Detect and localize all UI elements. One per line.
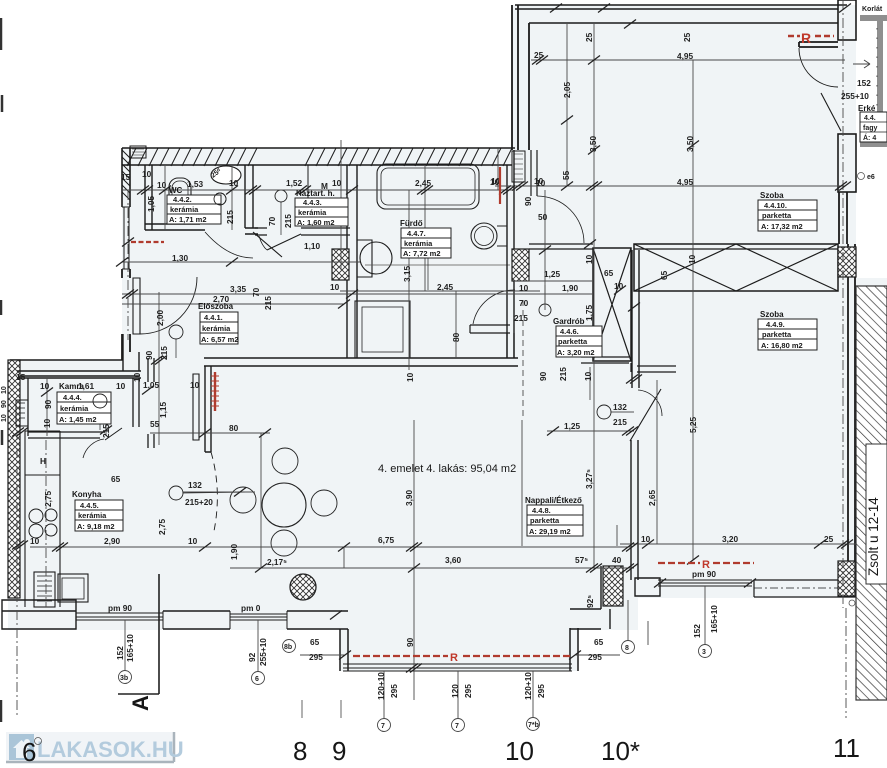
Szoba 4.4.10 [758, 200, 817, 231]
svg-text:4.4.: 4.4. [864, 115, 876, 122]
WC [167, 195, 221, 224]
svg-text:2,65: 2,65 [647, 489, 657, 506]
svg-text:215: 215 [263, 296, 273, 310]
door chain y=433 [150, 432, 270, 434]
Eloszoba [200, 312, 238, 344]
svg-text:215: 215 [225, 210, 235, 224]
svg-text:10: 10 [1, 386, 8, 394]
wall between windows [163, 611, 230, 629]
long horizontal y=547 [30, 546, 630, 548]
wall crossed band horizontal (between szoba rooms) [634, 244, 838, 291]
svg-text:10: 10 [30, 536, 40, 546]
red vertical line furdo right [499, 167, 501, 204]
svg-text:10: 10 [641, 534, 651, 544]
svg-text:2,45: 2,45 [437, 282, 454, 292]
dim verticals lower wing top strip [232, 140, 425, 291]
white box for street name [866, 444, 887, 584]
svg-text:M: M [321, 181, 328, 191]
svg-text:2,75: 2,75 [43, 490, 53, 507]
svg-text:1,90: 1,90 [229, 543, 239, 560]
Konyha [75, 500, 123, 531]
svg-text:H: H [40, 456, 46, 466]
svg-text:10: 10 [614, 281, 624, 291]
svg-text:fagy: fagy [863, 125, 878, 132]
svg-text:132: 132 [613, 402, 627, 412]
svg-text:1,53: 1,53 [187, 179, 204, 189]
svg-text:65: 65 [111, 474, 121, 484]
svg-text:e6: e6 [867, 174, 875, 181]
vertical near kamra [47, 378, 106, 436]
svg-text:A: 17,32 m2: A: 17,32 m2 [761, 222, 803, 231]
svg-text:4.4.6.: 4.4.6. [560, 327, 579, 336]
center axis dash-dot lines [843, 0, 846, 718]
wall top band of lower wing (y=148..166) [122, 148, 515, 165]
eloszoba dims [122, 262, 593, 304]
balcony label box [860, 112, 887, 142]
shower square furdo [355, 301, 410, 358]
wall left lower piece to step [122, 334, 130, 360]
svg-text:10: 10 [229, 178, 239, 188]
wall between konyha and eloszoba x=148..154 [148, 358, 154, 448]
gardrob top wall [529, 244, 593, 249]
wall crossed tall box (gardrob right) [581, 248, 676, 388]
svg-text:55: 55 [150, 419, 160, 429]
svg-text:255+10: 255+10 [841, 91, 869, 101]
red radiator bay window [353, 655, 570, 657]
vertical chains center [159, 166, 414, 700]
Haztart [295, 198, 348, 226]
svg-text:4,95: 4,95 [677, 51, 694, 61]
szoba 4.4.9 internal verticals [656, 380, 658, 544]
svg-text:1,52: 1,52 [286, 178, 303, 188]
svg-text:8b: 8b [284, 644, 292, 651]
svg-text:25: 25 [682, 32, 692, 42]
svg-text:10: 10 [142, 169, 152, 179]
scan edge artifacts left [1, 18, 2, 722]
svg-text:3,60: 3,60 [445, 555, 462, 565]
svg-text:165+10: 165+10 [709, 605, 719, 633]
svg-text:Szoba: Szoba [760, 191, 784, 200]
window pm0 [230, 611, 287, 629]
svg-text:92: 92 [247, 652, 257, 662]
svg-text:90: 90 [405, 637, 415, 647]
wall hatch ticks in top band [127, 148, 512, 166]
konyha/nappali divider x=204..212 [205, 366, 211, 452]
toilet furdo [357, 240, 372, 277]
svg-text:A: 6,57 m2: A: 6,57 m2 [201, 335, 239, 344]
column crosshatio right of cross band [838, 247, 856, 277]
svg-text:120+10: 120+10 [376, 672, 386, 700]
red marks group [131, 30, 834, 664]
WC walls [145, 165, 152, 230]
svg-text:65: 65 [604, 268, 614, 278]
svg-text:3,35: 3,35 [230, 284, 247, 294]
svg-text:7: 7 [455, 723, 459, 730]
shaft box top [512, 151, 525, 182]
lamp line konyha [183, 491, 255, 493]
svg-text:25: 25 [534, 50, 544, 60]
svg-text:215: 215 [159, 346, 169, 360]
balcony door closed leaf bar [799, 42, 838, 47]
svg-text:R: R [801, 30, 811, 46]
svg-text:90: 90 [144, 350, 154, 360]
crosshatch cols at bay right [603, 566, 623, 606]
Nappali [527, 505, 583, 536]
stove circles [29, 509, 43, 523]
svg-text:152: 152 [692, 624, 702, 638]
window konyha (pm90) [76, 611, 163, 629]
balcony slab bottom right [754, 580, 856, 597]
svg-text:11: 11 [833, 733, 860, 763]
kamra door [105, 428, 122, 440]
svg-text:295: 295 [309, 652, 323, 662]
svg-text:3,50: 3,50 [588, 135, 598, 152]
wall top outer of upper-right wing [515, 5, 847, 23]
gardrob verticals [545, 190, 590, 400]
bathtub [377, 164, 479, 209]
svg-text:10: 10 [42, 418, 52, 428]
svg-text:1,05: 1,05 [143, 380, 160, 390]
circles with numbers [119, 640, 712, 732]
svg-text:8: 8 [625, 645, 629, 652]
svg-text:Á: 4: Á: 4 [863, 133, 876, 142]
svg-text:10: 10 [157, 180, 167, 190]
svg-text:65: 65 [310, 637, 320, 647]
svg-text:10: 10 [1, 414, 8, 422]
svg-text:parketta: parketta [558, 337, 588, 346]
svg-text:2,00: 2,00 [155, 309, 165, 326]
svg-text:A: 1,60 m2: A: 1,60 m2 [297, 218, 335, 227]
svg-text:pm 0: pm 0 [241, 603, 261, 613]
svg-text:4.4.9.: 4.4.9. [766, 320, 785, 329]
kitchen pass dashed arc [211, 452, 217, 531]
svg-text:4.4.7.: 4.4.7. [407, 229, 426, 238]
svg-text:1,25: 1,25 [564, 421, 581, 431]
wall right of window2 to bay [287, 611, 348, 671]
svg-text:3: 3 [702, 649, 706, 656]
svg-text:Erké: Erké [858, 104, 876, 113]
svg-text:2,75: 2,75 [157, 518, 167, 535]
svg-text:kerámia: kerámia [170, 205, 199, 214]
right room chain y=544 [620, 543, 856, 545]
balcony door arc [799, 48, 838, 87]
svg-text:40: 40 [612, 555, 622, 565]
svg-text:3,50: 3,50 [685, 135, 695, 152]
red radiator bottom right window [658, 562, 754, 564]
dim chain top of lower wing y=190 [122, 189, 515, 191]
bottom wall of top strip rooms y=358..366 [204, 358, 518, 366]
svg-text:295: 295 [536, 684, 546, 698]
svg-text:R: R [450, 652, 458, 664]
svg-text:120+10: 120+10 [523, 672, 533, 700]
svg-text:295: 295 [588, 652, 602, 662]
svg-text:25: 25 [824, 534, 834, 544]
toilet WC [169, 178, 191, 205]
svg-text:1,25: 1,25 [544, 269, 561, 279]
svg-text:4.4.1.: 4.4.1. [204, 313, 223, 322]
leader lines bottom windows [125, 586, 705, 718]
svg-text:LAKASOK.HU: LAKASOK.HU [37, 737, 184, 762]
sink block [34, 572, 55, 607]
svg-text:4,95: 4,95 [677, 177, 694, 187]
svg-text:15: 15 [121, 172, 131, 182]
svg-text:90: 90 [43, 399, 53, 409]
svg-text:Szoba: Szoba [760, 310, 784, 319]
svg-text:165+10: 165+10 [125, 634, 135, 662]
svg-text:A: 1,71 m2: A: 1,71 m2 [169, 215, 207, 224]
svg-text:3,90: 3,90 [404, 489, 414, 506]
bay right step wall [570, 566, 610, 629]
svg-text:25: 25 [584, 32, 594, 42]
svg-text:pm 90: pm 90 [108, 603, 132, 613]
svg-text:80: 80 [451, 332, 461, 342]
svg-text:10: 10 [132, 372, 142, 382]
nappali right wall lower x=631..639 [631, 440, 638, 580]
svg-text:10: 10 [332, 178, 342, 188]
wall pillar right mid [838, 134, 856, 192]
svg-text:10: 10 [583, 371, 593, 381]
svg-text:7: 7 [381, 723, 385, 730]
svg-text:9: 9 [332, 736, 346, 766]
svg-text:4.4.2.: 4.4.2. [173, 195, 192, 204]
svg-text:5,25: 5,25 [688, 416, 698, 433]
svg-text:6,75: 6,75 [378, 535, 395, 545]
svg-text:70: 70 [267, 216, 277, 226]
svg-text:215: 215 [283, 214, 293, 228]
svg-text:A: 29,19 m2: A: 29,19 m2 [529, 527, 571, 536]
svg-text:215: 215 [613, 417, 627, 427]
section line A [118, 574, 159, 694]
Szoba 4.4.9 [758, 319, 817, 350]
svg-text:1,05: 1,05 [146, 195, 156, 212]
svg-text:7*b: 7*b [528, 722, 539, 729]
svg-text:70: 70 [251, 287, 261, 297]
svg-text:3b: 3b [120, 675, 128, 682]
svg-text:R: R [702, 559, 710, 571]
wall left outer upper (x=122..130) [122, 148, 130, 207]
Gardrob [556, 326, 602, 357]
M washing machine [308, 165, 347, 203]
konyha counter [25, 431, 60, 607]
svg-text:10: 10 [190, 380, 200, 390]
svg-text:65: 65 [659, 270, 669, 280]
svg-text:120: 120 [450, 684, 460, 698]
svg-text:55: 55 [561, 170, 571, 180]
second horizontal y=568 [230, 567, 634, 569]
furdo inner dims [340, 190, 540, 370]
svg-text:132: 132 [188, 480, 202, 490]
svg-text:65: 65 [594, 637, 604, 647]
svg-text:Zsolt u 12-14: Zsolt u 12-14 [866, 497, 881, 576]
watermark [6, 732, 184, 762]
red radiator top right with R [788, 35, 834, 38]
svg-text:92⁵: 92⁵ [585, 595, 595, 608]
svg-text:4.4.3.: 4.4.3. [303, 198, 322, 207]
svg-text:90: 90 [523, 196, 533, 206]
svg-text:90: 90 [538, 371, 548, 381]
crosshatch col bottom right [838, 561, 855, 596]
svg-text:1,75: 1,75 [584, 304, 594, 321]
svg-text:A: A [128, 695, 153, 711]
red dash left of WC [131, 241, 164, 243]
washbasin furdo [471, 223, 497, 249]
svg-text:A: 16,80 m2: A: 16,80 m2 [761, 341, 803, 350]
svg-text:2,70: 2,70 [213, 294, 230, 304]
svg-text:215: 215 [101, 424, 111, 438]
svg-text:1,15: 1,15 [158, 401, 168, 418]
lamps redrawn over boxes [93, 193, 226, 408]
svg-text:Korlát: Korlát [862, 6, 883, 13]
svg-text:215: 215 [514, 313, 528, 323]
svg-text:1,90: 1,90 [562, 283, 579, 293]
chain y=436 nappali/szoba [522, 420, 634, 546]
column crosshatch furdo wall [512, 249, 529, 281]
balcony top right gray [860, 15, 887, 21]
svg-text:50: 50 [538, 212, 548, 222]
svg-text:4.4.8.: 4.4.8. [532, 506, 551, 515]
svg-text:Háztart. h.: Háztart. h. [296, 189, 335, 198]
svg-text:kerámia: kerámia [78, 511, 107, 520]
bottom-left wall block [2, 600, 76, 629]
WC door leaf diagonal + arc [253, 232, 282, 257]
svg-text:295: 295 [389, 684, 399, 698]
entry door leaf + arc [133, 278, 140, 334]
window left wall (x=124..129, y207-269) [122, 207, 130, 269]
svg-text:WC: WC [169, 186, 183, 195]
el.cabinet small box [16, 400, 28, 426]
svg-text:1,61: 1,61 [78, 381, 95, 391]
svg-text:4.4.4.: 4.4.4. [63, 393, 82, 402]
svg-text:10: 10 [330, 282, 340, 292]
svg-text:10: 10 [519, 283, 529, 293]
svg-text:10: 10 [116, 381, 126, 391]
svg-text:kerámia: kerámia [60, 404, 89, 413]
svg-text:80: 80 [229, 423, 239, 433]
wall step out to left (y=360/376) [10, 360, 140, 376]
svg-text:parketta: parketta [762, 211, 792, 220]
kamra top wall band [17, 371, 141, 378]
svg-text:A: 1,45 m2: A: 1,45 m2 [59, 415, 97, 424]
bottom right window assembly [635, 578, 660, 596]
svg-text:4. emelet 4. lakás: 95,04 m2: 4. emelet 4. lakás: 95,04 m2 [378, 463, 516, 475]
svg-text:Konyha: Konyha [72, 490, 102, 499]
svg-text:295: 295 [463, 684, 473, 698]
wall right x=839/847 between pillar and cross band [839, 192, 847, 244]
svg-text:A: 9,18 m2: A: 9,18 m2 [77, 522, 115, 531]
svg-text:255+10: 255+10 [258, 638, 268, 666]
Kamra [57, 392, 111, 424]
svg-text:10: 10 [687, 254, 697, 264]
svg-text:10: 10 [536, 178, 546, 188]
kamra walls [28, 378, 139, 438]
wall left spine x=512/518 upper wing [512, 5, 529, 150]
svg-text:15: 15 [16, 372, 26, 382]
svg-text:2,05: 2,05 [562, 81, 572, 98]
tiny legend box at top-left corner [130, 146, 146, 158]
dim line y=186 upper room [495, 185, 845, 187]
bay window bottom [343, 664, 572, 671]
svg-text:1,30: 1,30 [172, 253, 189, 263]
szoba 4.4.9 door [630, 389, 661, 441]
svg-text:10: 10 [405, 372, 415, 382]
Furdo [401, 228, 451, 258]
svg-text:3,15: 3,15 [402, 265, 412, 282]
vertical dim chains upper right [498, 24, 693, 560]
left vertical chain [17, 430, 46, 716]
svg-text:57⁵: 57⁵ [575, 555, 588, 565]
svg-text:3,27⁵: 3,27⁵ [584, 469, 594, 489]
svg-text:A: 7,72 m2: A: 7,72 m2 [403, 249, 441, 258]
svg-text:A: 3,20 m2: A: 3,20 m2 [557, 348, 595, 357]
svg-text:4.4.5.: 4.4.5. [80, 501, 99, 510]
column circle crosshatched in nappali [290, 574, 316, 600]
Furdo right wall x=507..514 [507, 150, 514, 358]
wall left below window [122, 269, 130, 278]
lamp circles with stems [214, 193, 226, 205]
svg-text:2,17⁵: 2,17⁵ [267, 557, 287, 567]
street hatch band right [856, 286, 887, 700]
svg-text:Gardrób: Gardrób [553, 317, 585, 326]
svg-text:parketta: parketta [530, 516, 560, 525]
svg-text:215: 215 [558, 367, 568, 381]
bay dims small lines [300, 621, 648, 655]
szoba bottom chains verticals [593, 544, 595, 568]
svg-text:10: 10 [584, 254, 594, 264]
svg-text:parketta: parketta [762, 330, 792, 339]
gardrob door arc [537, 196, 584, 243]
door leaf at eloszoba/konyha [193, 374, 199, 440]
svg-text:1,10: 1,10 [304, 241, 321, 251]
svg-text:4.4.10.: 4.4.10. [764, 201, 787, 210]
svg-text:10*: 10* [601, 736, 640, 766]
svg-text:kerámia: kerámia [404, 239, 433, 248]
wall right of szoba 4.4.9 x=848/855 [848, 244, 855, 580]
svg-text:Fürdő: Fürdő [400, 219, 423, 228]
balcony door second leaf diagonal [821, 93, 841, 131]
hall alcove piece [470, 325, 510, 333]
dining table + chairs [262, 483, 306, 527]
svg-text:10: 10 [188, 536, 198, 546]
svg-text:152: 152 [115, 646, 125, 660]
svg-text:70: 70 [519, 298, 529, 308]
crosshatch shaft left of bathroom [332, 249, 349, 280]
Haztart walls [347, 165, 357, 358]
svg-text:10: 10 [505, 736, 534, 766]
svg-text:kerámia: kerámia [202, 324, 231, 333]
svg-text:90: 90 [1, 400, 8, 408]
svg-text:3,20: 3,20 [722, 534, 739, 544]
wall pillar top-right corner [838, 0, 856, 40]
svg-text:152: 152 [857, 78, 871, 88]
svg-text:6: 6 [255, 676, 259, 683]
leaders above axis numbers [302, 700, 341, 718]
red ladder mark kitchen wall [214, 372, 216, 411]
duct oval in top band [211, 166, 241, 184]
svg-text:10: 10 [40, 381, 50, 391]
svg-text:kerámia: kerámia [298, 208, 327, 217]
svg-text:Nappali/Étkező: Nappali/Étkező [525, 496, 582, 505]
svg-text:2,45: 2,45 [415, 178, 432, 188]
dim line y=60 upper room [531, 59, 845, 61]
wall left hatched band x=8..20 [8, 360, 20, 598]
svg-text:215+20: 215+20 [185, 497, 213, 507]
svg-text:2,90: 2,90 [104, 536, 121, 546]
svg-text:8: 8 [293, 736, 307, 766]
